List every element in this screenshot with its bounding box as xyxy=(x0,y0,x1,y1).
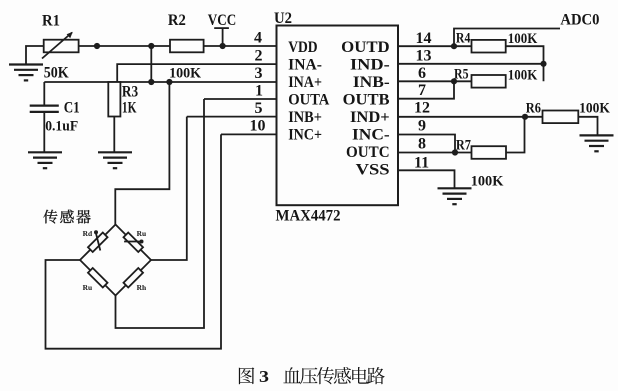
svg-text:100K: 100K xyxy=(169,65,201,81)
wire R1 left lead to ground xyxy=(26,46,44,65)
svg-text:R5: R5 xyxy=(454,67,469,83)
svg-text:Ru: Ru xyxy=(137,230,147,238)
wire sensor bridge top riser to INA+ rail xyxy=(115,82,169,225)
svg-text:12: 12 xyxy=(414,100,430,117)
svg-text:C1: C1 xyxy=(64,100,80,117)
op-amp U2 MAX4472 body xyxy=(277,26,399,206)
svg-text:6: 6 xyxy=(418,65,426,82)
svg-text:Rh: Rh xyxy=(137,284,147,292)
wire OUTB pin 7 up to INB- xyxy=(398,81,454,98)
label sensor 传感器 xyxy=(43,210,90,224)
resistor R3 xyxy=(108,82,120,152)
svg-text:100K: 100K xyxy=(508,31,538,47)
resistor R2 xyxy=(170,40,204,53)
wire R6 output to ground xyxy=(578,117,597,136)
wire INC- pin 9 down to OUTC xyxy=(398,135,455,153)
svg-text:VDD: VDD xyxy=(288,39,317,56)
svg-text:9: 9 xyxy=(418,118,426,135)
svg-text:VSS: VSS xyxy=(356,161,390,178)
ground below C1 xyxy=(28,152,62,168)
wire INC+ pin 10 xyxy=(221,133,277,135)
wire INC+ vertical down around bridge to left vertex xyxy=(46,134,222,348)
wire R7 output up to IND+ node xyxy=(506,117,525,153)
svg-text:OUTD: OUTD xyxy=(341,39,390,56)
wire vertical from top rail to INA+ rail xyxy=(150,46,152,82)
sensor bridge resistor Ru bottom-left arm xyxy=(80,260,116,296)
svg-text:OUTC: OUTC xyxy=(346,144,390,161)
node junction dot pin 14 to ADC0 xyxy=(451,43,457,49)
svg-text:100K: 100K xyxy=(579,100,610,116)
svg-text:100K: 100K xyxy=(508,68,538,84)
svg-text:INA-: INA- xyxy=(288,57,322,74)
node junction dot on rail xyxy=(94,43,100,49)
resistor R4 xyxy=(472,40,506,53)
ground below R1 xyxy=(9,65,43,81)
wire INA+ rail pin 3 xyxy=(44,81,276,83)
node junction dot rail to R3 branch xyxy=(148,43,154,49)
node junction dot INA+ rail to sensor riser xyxy=(166,79,172,85)
svg-text:R4: R4 xyxy=(456,30,471,46)
svg-text:Ru: Ru xyxy=(83,284,93,292)
svg-text:1K: 1K xyxy=(122,100,137,117)
svg-text:1: 1 xyxy=(255,83,263,100)
svg-text:IND+: IND+ xyxy=(350,109,390,126)
svg-text:INC+: INC+ xyxy=(288,127,322,144)
svg-text:13: 13 xyxy=(416,47,432,64)
svg-text:U2: U2 xyxy=(274,10,292,27)
svg-text:IND-: IND- xyxy=(350,57,390,74)
svg-text:R3: R3 xyxy=(122,83,138,100)
svg-text:5: 5 xyxy=(255,100,263,117)
wire OUTA vertical down to bridge bottom xyxy=(116,99,205,328)
wire INB+ pin 5 xyxy=(187,116,277,118)
node junction dot pin 6 pin 7 R5 xyxy=(451,78,457,84)
wire INA- pin 2 xyxy=(117,64,276,82)
svg-text:INA+: INA+ xyxy=(288,74,322,91)
wire R4 output down to IND- xyxy=(506,46,544,81)
svg-text:ADC0: ADC0 xyxy=(560,12,599,29)
resistor R6 xyxy=(543,111,579,124)
svg-text:R1: R1 xyxy=(42,13,60,30)
wire INB+ vertical down to bridge right vertex xyxy=(151,117,187,260)
sensor bridge resistor Rd top-left arm xyxy=(80,225,116,261)
svg-text:10: 10 xyxy=(250,118,266,135)
resistor R5 xyxy=(472,75,506,88)
wire top rail R2 to U2 pin 4 xyxy=(204,45,277,47)
svg-text:OUTA: OUTA xyxy=(288,92,330,109)
svg-text:2: 2 xyxy=(255,47,263,64)
ground right of R6 xyxy=(580,135,614,151)
svg-text:INC-: INC- xyxy=(352,127,390,144)
wire IND- pin 13 xyxy=(398,63,544,65)
svg-text:0.1uF: 0.1uF xyxy=(45,118,78,134)
sensor bridge resistor Rh bottom-right arm xyxy=(116,260,152,296)
node junction dot pin 12 R6 R7 xyxy=(522,114,528,120)
node junction dot VCC xyxy=(220,43,226,49)
svg-text:100K: 100K xyxy=(471,173,504,189)
svg-text:MAX4472: MAX4472 xyxy=(276,207,341,224)
wire OUTC pin 8 xyxy=(398,152,472,154)
svg-text:11: 11 xyxy=(414,154,429,171)
svg-text:3: 3 xyxy=(259,367,269,386)
svg-text:4: 4 xyxy=(254,30,262,47)
svg-text:OUTB: OUTB xyxy=(343,92,390,109)
svg-text:Rd: Rd xyxy=(83,230,93,238)
node junction dot on INA+ rail xyxy=(148,79,154,85)
wire OUTD pin 14 xyxy=(398,45,472,47)
wire VSS pin 11 to ground xyxy=(398,170,455,188)
wire ADC0 riser and rail xyxy=(454,29,560,47)
svg-text:7: 7 xyxy=(418,82,426,99)
svg-text:50K: 50K xyxy=(44,65,69,82)
wire OUTA pin 1 xyxy=(204,98,277,100)
svg-text:3: 3 xyxy=(255,65,263,82)
svg-text:R6: R6 xyxy=(526,101,542,117)
node junction dot pin 8 pin 9 R7 xyxy=(452,149,458,155)
wire INB- pin 6 xyxy=(398,80,472,82)
ground below VSS xyxy=(438,188,472,204)
svg-text:14: 14 xyxy=(416,30,432,47)
resistor R1 (potentiometer) xyxy=(42,32,79,59)
svg-text:R2: R2 xyxy=(168,12,186,29)
resistor R7 xyxy=(472,146,507,159)
node junction dot R4 R5 feedback xyxy=(540,61,546,67)
caption 图 3 血压传感电路 xyxy=(239,367,385,386)
wire top rail R1 to R2 xyxy=(79,45,170,47)
wire IND+ pin 12 xyxy=(398,116,543,118)
svg-text:VCC: VCC xyxy=(208,12,236,29)
svg-text:8: 8 xyxy=(418,136,426,153)
svg-text:R7: R7 xyxy=(456,137,472,153)
capacitor C1 xyxy=(30,82,59,152)
svg-text:INB+: INB+ xyxy=(288,109,322,126)
power VCC symbol xyxy=(214,28,229,46)
ground below R3 xyxy=(98,152,132,168)
sensor bridge resistor Ru top-right arm xyxy=(116,225,152,261)
svg-text:INB-: INB- xyxy=(353,74,390,91)
